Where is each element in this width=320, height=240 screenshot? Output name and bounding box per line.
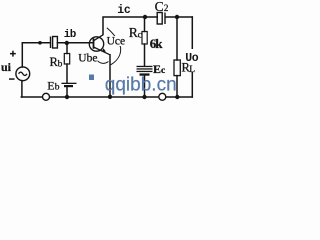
svg-text:E: E (47, 78, 54, 92)
node junction Eb / bottom rail (65, 95, 69, 99)
transistor emitter arrowhead (102, 48, 106, 51)
wire Rc to Ec (144, 44, 146, 66)
wire top rail left segment (103, 17, 157, 35)
resistor Rc (142, 32, 147, 45)
svg-text:ce: ce (115, 36, 125, 48)
svg-text:2: 2 (164, 3, 169, 13)
wire Rc branch upper (144, 17, 146, 32)
wire Ec to bottom rail (144, 76, 146, 97)
wire RL branch upper (176, 17, 178, 60)
label Uo (white backing over right edge) (185, 49, 200, 72)
label Ube (79, 53, 98, 62)
voltage arc Ube (95, 57, 109, 64)
watermark fragment (89, 75, 94, 81)
wire Rb to Eb (66, 64, 68, 83)
wire right edge (191, 17, 193, 97)
label + (source polarity) (10, 51, 16, 57)
voltage arc Uce (107, 28, 121, 65)
node junction top rail / RL (175, 15, 179, 19)
wire Rb branch upper (66, 43, 68, 54)
svg-text:c: c (138, 29, 143, 40)
node terminal circle input (left, on bottom rail) (43, 93, 50, 100)
wire input top from source corner to C1 (22, 42, 50, 44)
wire C1 to transistor base (57, 42, 93, 44)
label Uce (107, 36, 124, 46)
wire RL to bottom rail (176, 76, 178, 97)
svg-text:L: L (189, 65, 195, 75)
node junction top rail / Rc (143, 15, 147, 19)
wire source bottom leg (21, 81, 23, 97)
transistor V (NPN) (89, 35, 110, 55)
svg-text:C: C (155, 0, 164, 14)
node junction ib / Rb (65, 41, 69, 45)
wire emitter vertical (109, 55, 111, 97)
battery Eb (62, 83, 77, 88)
svg-text:qqibb.cn: qqibb.cn (105, 75, 177, 96)
svg-text:be: be (87, 53, 98, 65)
svg-text:ui: ui (1, 60, 12, 74)
capacitor C2 (157, 13, 166, 25)
node junction Ec / bottom rail (142, 95, 146, 99)
node terminal circle output (right, on bottom rail) (159, 93, 166, 100)
node junction emitter / bottom rail (108, 95, 112, 99)
capacitor C1 (50, 37, 58, 49)
node junction RL / bottom rail (175, 95, 179, 99)
wire top rail right segment after C2 (166, 16, 193, 18)
svg-text:ic: ic (117, 4, 131, 17)
wire bottom rail (21, 96, 192, 98)
label - (source polarity) (9, 78, 15, 80)
current arrow on input wire (38, 41, 42, 45)
svg-text:ib: ib (64, 29, 77, 41)
svg-text:b: b (55, 83, 60, 93)
wire source riser left (21, 43, 23, 67)
resistor RL (174, 60, 180, 76)
resistor Rb (64, 54, 69, 65)
battery Ec (137, 66, 153, 76)
source ui (AC source circle with sine) (16, 67, 30, 81)
svg-text:6k: 6k (150, 36, 164, 51)
wire Eb to bottom rail (66, 87, 68, 98)
svg-text:b: b (58, 60, 63, 70)
